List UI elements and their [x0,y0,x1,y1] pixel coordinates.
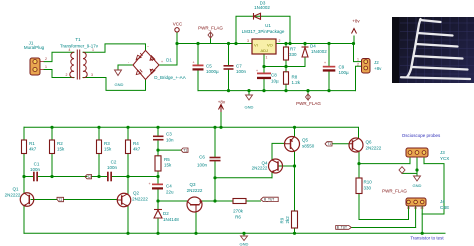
wire Q6 emitter node and R10 [359,152,410,220]
capacitor C9 [323,61,336,72]
svg-text:R6: R6 [235,215,241,220]
svg-text:4k7: 4k7 [133,147,141,152]
wire C5 leads [197,44,199,91]
wire Q4 collector to Q5 base [272,143,285,160]
svg-text:ADJ: ADJ [261,48,269,53]
wire +8v output stub [353,36,355,44]
capacitor C3 [153,136,164,141]
wire bridge plus to VCC rail [159,44,177,66]
svg-text:Q2: Q2 [133,191,140,196]
svg-text:2N2222: 2N2222 [132,197,148,202]
svg-text:1N4002: 1N4002 [311,49,327,54]
svg-text:J3: J3 [440,150,445,155]
wire bridge left to GND [118,64,133,66]
svg-text:PWR_FLAG: PWR_FLAG [296,101,321,106]
wire R8 leads [285,67,287,91]
capacitor C7 [224,65,234,70]
connector J1 [30,58,44,75]
diode D3 [254,13,261,20]
resistor R8 [284,72,289,84]
wire R2 leads [51,127,53,176]
resistor R6 [233,199,246,204]
svg-text:J4: J4 [440,199,445,204]
svg-text:T2: T2 [87,175,91,179]
wire GND2 stub [248,91,250,95]
svg-text:Q6: Q6 [366,140,373,145]
svg-text:3: 3 [91,73,93,77]
svg-text:270k: 270k [233,209,244,214]
svg-text:4k7: 4k7 [29,147,37,152]
svg-text:R4: R4 [133,141,139,146]
svg-text:1N4002: 1N4002 [254,5,270,10]
svg-text:2N2222: 2N2222 [5,193,21,198]
wire C6 column and emitter bus [215,127,272,201]
svg-text:1.2k: 1.2k [292,80,301,85]
power flag PWR_FLAG1 [208,32,213,39]
svg-text:C9: C9 [339,65,345,70]
svg-text:2N2222: 2N2222 [252,166,268,171]
wire D3 bypass loop [236,16,290,43]
ground GND4 [241,236,248,241]
svg-text:U1: U1 [265,23,271,28]
wire Q4 emitter [271,172,273,178]
capacitor C5 [193,61,204,71]
svg-text:R8: R8 [292,75,298,80]
svg-text:Q4: Q4 [261,161,268,166]
svg-text:1: 1 [266,56,268,60]
transistor Q6 [349,138,363,152]
connector J2 [362,59,371,74]
svg-text:R3: R3 [104,141,110,146]
svg-text:C4: C4 [166,184,172,189]
svg-text:C7: C7 [236,64,242,69]
wire +8v lower distribution rail [24,127,359,138]
diode D4 [302,47,309,57]
svg-text:2N2222: 2N2222 [366,146,382,151]
svg-text:+: + [256,69,258,73]
svg-text:C2: C2 [111,160,117,165]
diode D2 [154,210,162,219]
wire Q1 collector [23,177,25,194]
svg-text:T1: T1 [183,149,187,153]
svg-text:VI: VI [254,43,258,48]
svg-text:~: ~ [147,75,149,79]
svg-text:D1: D1 [166,58,172,63]
wire B_TUT bus to J4 [352,227,416,229]
svg-text:C3: C3 [166,132,172,137]
transistor Q4 [269,159,283,173]
wire oscillator node row [24,176,158,178]
svg-text:B_TUT: B_TUT [337,226,347,230]
bridge rectifier D1 [133,50,159,79]
svg-text:15k: 15k [57,147,65,152]
svg-text:B_TUT: B_TUT [264,198,274,202]
capacitor C2 [107,172,112,182]
svg-text:+8v: +8v [218,100,226,105]
svg-text:Q1: Q1 [12,187,19,192]
svg-text:1: 1 [357,58,359,62]
wire PWR_FLAG2 stub [307,91,309,94]
svg-text:GND: GND [413,183,422,188]
svg-text:C5: C5 [206,64,212,69]
power symbol +8v lower [219,105,224,113]
global label L4 [325,142,332,147]
resistor R4 [126,140,131,154]
wire GND3 lead [416,170,418,176]
svg-text:+: + [161,60,163,64]
global label L1 [57,197,64,202]
svg-text:YCX: YCX [440,156,449,161]
wire J3 pin3 routing to J4 [422,164,444,214]
transistor Q5 [285,137,300,152]
wire Q5 emitter top [294,127,296,136]
capacitor C8 [256,69,271,79]
svg-text:PWR_FLAG: PWR_FLAG [198,26,223,31]
svg-text:Q3: Q3 [189,182,196,187]
wire GND4 stub [243,233,245,236]
svg-text:s8550: s8550 [302,144,315,149]
wire +8v2 stub [220,112,222,127]
wire J4 pin stubs [409,206,423,233]
svg-text:C6: C6 [199,155,205,160]
wire R3 leads [98,127,100,176]
svg-text:+: + [324,61,326,65]
svg-text:100n: 100n [107,165,118,170]
wire R1 leads [23,127,25,176]
power symbol VCC [175,28,179,32]
wire Q1 emitter [23,206,25,233]
wire VCC input rail [177,43,252,45]
wire C3 leads and node to label [158,127,181,150]
wire R4 leads [127,127,129,176]
transformer T1 [70,50,87,80]
connector J4 [406,198,426,208]
wire J1 pin1 to T1 primary bottom [44,70,74,78]
svg-text:100µ: 100µ [339,70,350,75]
svg-text:Transistor to test: Transistor to test [410,236,444,241]
svg-text:1: 1 [92,48,94,52]
svg-text:1: 1 [45,65,47,69]
wire C7 leads [228,44,230,91]
svg-text:330: 330 [289,52,297,57]
svg-text:Q5: Q5 [302,138,309,143]
svg-text:15k: 15k [104,147,112,152]
svg-text:J2: J2 [374,60,379,65]
svg-text:22u: 22u [166,190,174,195]
svg-text:VO: VO [267,43,273,48]
wire Q2 emitter [127,207,129,234]
svg-text:3: 3 [247,39,249,43]
wire R6 to label [246,200,261,202]
wire VO output rail [276,43,354,45]
svg-text:10n: 10n [166,138,174,143]
svg-text:1000µ: 1000µ [206,69,219,74]
svg-text:GND: GND [115,82,124,87]
svg-text:C1: C1 [34,162,40,167]
resistor R9 [292,211,298,228]
wire VCC symbol stub [176,32,178,44]
transistor Q3 [187,197,202,213]
svg-text:100n: 100n [30,167,41,172]
wire C4 leads [157,177,159,202]
resistor R7 [284,47,289,60]
svg-text:GND: GND [240,242,249,246]
svg-text:T2: T2 [59,198,63,202]
svg-text:1N4148: 1N4148 [163,217,179,222]
svg-text:2: 2 [66,73,68,77]
svg-text:Oscioscope probes: Oscioscope probes [402,133,441,138]
svg-text:CBE: CBE [440,205,449,210]
wire Q6 base from label [333,143,350,145]
svg-text:+: + [193,61,195,65]
global label B_TUT2 [336,226,352,230]
svg-text:330: 330 [364,186,372,191]
svg-text:+: + [149,182,151,186]
wire PWR_FLAG3 tap [402,172,417,174]
global label L2 [85,175,92,180]
wire J3 pin stubs [410,157,424,170]
wire J1 pin2 to T1 primary top [44,52,74,61]
svg-text:+8v: +8v [374,66,382,71]
svg-text:2: 2 [357,63,359,67]
wire D4 leads [304,44,306,67]
resistor R2 [50,140,55,154]
svg-text:100n: 100n [236,69,247,74]
svg-text:D4: D4 [310,44,316,49]
wire T1 secondary top to bridge top [83,44,146,52]
wire U1 ADJ node [264,54,305,67]
wire bottom GND rail [24,232,445,234]
wire Q5 collector / R9 column [294,152,296,234]
oscilloscope photo [392,17,474,83]
wire Q4 base [279,165,295,167]
svg-text:15k: 15k [164,163,172,168]
wire Q1 base to Q2 base [31,199,117,201]
svg-text:4: 4 [69,48,71,52]
wire D2 leads [157,201,159,233]
svg-text:LM317_3PinPackage: LM317_3PinPackage [242,29,285,34]
svg-text:T1: T1 [75,37,81,42]
svg-text:R2: R2 [57,141,63,146]
svg-text:PWR_FLAG: PWR_FLAG [382,189,407,194]
wire J2 pin2 to GND rail [356,66,362,90]
svg-text:R10: R10 [364,180,373,185]
svg-text:VCC: VCC [173,22,183,27]
svg-text:GND: GND [245,105,254,110]
svg-text:D2: D2 [163,211,169,216]
ground GND3 [414,176,421,181]
svg-text:~: ~ [147,45,149,49]
ground GND2 [246,95,253,100]
svg-text:R9: R9 [280,217,285,223]
svg-text:10µ: 10µ [271,79,279,84]
capacitor C4 [149,182,164,190]
global label L3 [181,148,188,153]
svg-text:2N2222: 2N2222 [187,188,203,193]
svg-text:+8v: +8v [352,19,360,24]
svg-text:R1: R1 [29,141,35,146]
junction dots upper rails [175,42,178,45]
svg-text:100n: 100n [197,163,208,168]
svg-text:T1: T1 [327,142,331,146]
junction dots lower circuit [50,126,53,129]
wire Q2 collector [127,177,129,194]
wire Q3 left right bottom [158,201,233,233]
svg-text:2: 2 [45,57,47,61]
svg-text:2k2: 2k2 [285,216,290,224]
svg-text:2: 2 [279,39,281,43]
svg-text:C8: C8 [271,73,277,78]
wire C8 leads [263,67,265,91]
resistor R3 [97,140,102,154]
power symbol +8v output [352,29,357,34]
transistor Q1 [20,193,34,207]
wire PWR_FLAG1 stub [210,39,212,44]
resistor R5 [155,156,161,171]
svg-text:D_Bridge_+-AA: D_Bridge_+-AA [154,75,185,80]
wire J2 pin1 riser [354,44,362,62]
global label B_TUT [261,197,279,201]
connector J3 [406,148,428,157]
svg-text:R7: R7 [290,47,296,52]
capacitor C6 [210,157,221,162]
wire T1 secondary bottom to bridge bottom [83,78,146,91]
ground GND1 [115,70,122,76]
wire R7 leads [285,44,287,67]
svg-text:R5: R5 [164,157,170,162]
resistor R10 [356,178,362,194]
wire GND rail upper [198,90,356,92]
wire R5 leads [157,150,159,176]
power flag PWR_FLAG2 [306,94,311,100]
svg-text:MuralPlug: MuralPlug [24,45,45,50]
wire C9 leads [328,44,330,91]
wire GND1 stub [117,65,119,70]
transistor Q2 [117,193,131,207]
resistor R1 [22,140,27,154]
capacitor C1 [33,172,38,182]
regulator U1 [252,39,276,54]
power flag PWR_FLAG3 [399,167,405,174]
